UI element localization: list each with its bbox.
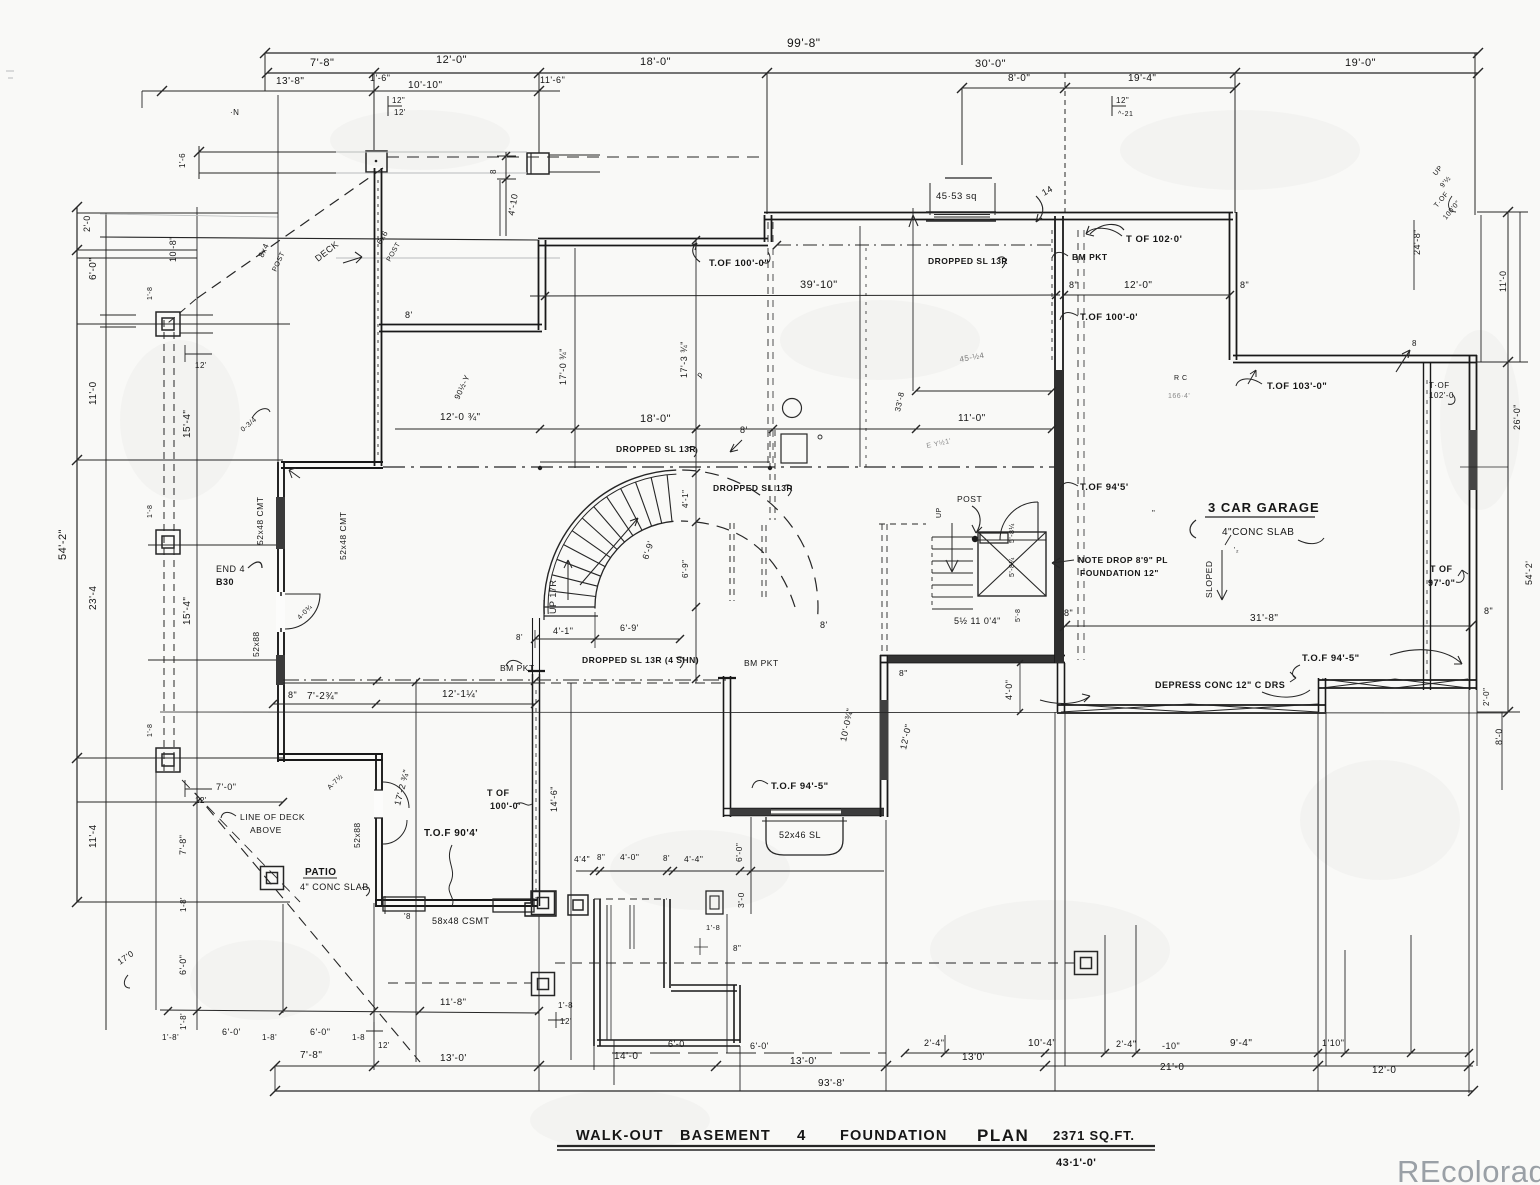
svg-text:11'-0": 11'-0" [958, 413, 986, 424]
svg-text:8': 8' [663, 854, 670, 863]
svg-text:POST: POST [957, 494, 982, 504]
svg-text:14'-0: 14'-0 [614, 1051, 638, 1062]
deck diagonal top-left [196, 168, 383, 299]
svg-text:4'4": 4'4" [574, 854, 590, 864]
post B top [527, 153, 549, 174]
svg-text:DROPPED SL 13R: DROPPED SL 13R [616, 444, 696, 454]
svg-text:·N: ·N [230, 108, 239, 117]
svg-text:1'-8: 1'-8 [706, 923, 720, 932]
svg-text:12'-0: 12'-0 [1372, 1065, 1396, 1076]
left tick lines [77, 212, 278, 214]
bottom vertical extension lines [538, 916, 540, 1091]
stair dashed arcs [676, 470, 818, 614]
svg-text:2'-4": 2'-4" [1116, 1039, 1136, 1049]
svg-text:6'-0': 6'-0' [750, 1041, 769, 1051]
svg-text:T OF: T OF [487, 788, 510, 798]
stair arrow [580, 518, 638, 585]
svg-text:52x88: 52x88 [251, 631, 261, 657]
svg-text:1-8': 1-8' [179, 897, 188, 912]
svg-text:6'-0: 6'-0 [668, 1039, 685, 1049]
vert ext x278 upper [277, 95, 279, 237]
post B right lines [549, 154, 600, 156]
svg-text:12": 12" [392, 96, 405, 105]
bottom outer line 93-8 [275, 1090, 1473, 1092]
svg-text:8": 8" [1240, 280, 1249, 290]
vert dim x696 [695, 240, 697, 683]
svg-text:12'-0": 12'-0" [436, 54, 467, 66]
room 727-884 wall x727 [723, 676, 725, 817]
svg-text:12'-0 ¾": 12'-0 ¾" [440, 412, 481, 423]
garage step x1322 [1318, 678, 1320, 712]
svg-text:13'-0': 13'-0' [440, 1053, 467, 1064]
kitchen dashed cabinets [729, 523, 731, 601]
svg-text:6'-9': 6'-9' [620, 623, 639, 633]
svg-text:8": 8" [1064, 608, 1073, 618]
svg-text:12'-0": 12'-0" [1124, 280, 1152, 291]
long thin line y712 leftward [160, 712, 1508, 713]
stair bottom [544, 606, 595, 608]
dim 4-10 vertical [499, 180, 501, 236]
wall y903 x379-535 with windows [375, 899, 537, 901]
piers at deck [532, 892, 555, 915]
vert dim x696 stair labels [692, 469, 700, 477]
small arcs wall x379 [383, 782, 409, 808]
svg-text:1-8': 1-8' [262, 1033, 277, 1042]
svg-text:11'-0: 11'-0 [88, 381, 99, 405]
svg-text:12'-1¼': 12'-1¼' [442, 688, 478, 700]
svg-text:10'-8": 10'-8" [168, 236, 178, 262]
svg-text:T.O.F 90'4': T.O.F 90'4' [424, 828, 478, 839]
south wall y659 x884-1065 [880, 655, 1065, 657]
dim line y704 [273, 703, 535, 705]
svg-text:12': 12' [378, 1041, 390, 1050]
svg-text:3 CAR GARAGE: 3 CAR GARAGE [1208, 500, 1320, 515]
window hatch top wall [926, 211, 996, 213]
svg-text:PATIO: PATIO [305, 867, 337, 878]
door opening arc on x281 [276, 592, 285, 632]
svg-text:T.OF 103'-0": T.OF 103'-0" [1267, 381, 1327, 392]
post A pad lines [199, 151, 336, 153]
nested 12in dims left [388, 96, 402, 116]
dims y871 row [576, 870, 884, 872]
svg-text:13'-8": 13'-8" [276, 76, 304, 87]
top dimension line row2 [267, 72, 1478, 74]
dash-dot south edge y680 [283, 679, 727, 681]
svg-text:8'-0: 8'-0 [1494, 728, 1504, 745]
jog wall y465 x283-383 [281, 461, 383, 463]
right ticks horizontals [1477, 211, 1528, 213]
interior line x913 [912, 208, 914, 391]
garage west bit x1061 y663-712 [1057, 663, 1059, 712]
svg-text:12': 12' [394, 108, 406, 117]
svg-text:19'-4": 19'-4" [1128, 73, 1156, 84]
svg-text:3'-0: 3'-0 [736, 892, 746, 908]
svg-text:WALK-OUT: WALK-OUT [576, 1128, 664, 1144]
svg-text:1'-8: 1'-8 [147, 287, 154, 300]
svg-text:1'10": 1'10" [1322, 1038, 1344, 1048]
svg-text:ABOVE: ABOVE [250, 825, 282, 835]
svg-text:6'-0": 6'-0" [178, 955, 188, 975]
svg-text:5'-8¼: 5'-8¼ [1009, 557, 1016, 577]
straight stair treads [932, 536, 973, 538]
wall y757 x281-383 [277, 753, 383, 755]
bottom-left small dim row y1010 [160, 1010, 539, 1013]
beam pocket top x536 [528, 670, 545, 672]
svg-text:8': 8' [740, 425, 748, 435]
step at x768 [764, 215, 766, 242]
svg-text:11'-4: 11'-4 [88, 824, 99, 848]
svg-text:11'-6": 11'-6" [540, 75, 565, 85]
svg-text:UP 17R: UP 17R [548, 580, 558, 614]
svg-text:4'-0": 4'-0" [620, 852, 639, 862]
svg-text:10'-4": 10'-4" [1028, 1038, 1056, 1049]
svg-text:UP: UP [936, 507, 943, 518]
wall x884 [880, 655, 882, 817]
left inner vertical lines [196, 207, 198, 1030]
UP arrow straight stair [951, 523, 953, 572]
dim 39-10 line y295 [530, 295, 1060, 296]
svg-text:1'-8: 1'-8 [147, 724, 154, 737]
dim line y428 [395, 428, 1052, 430]
garage bottom wall upper y684 [1318, 679, 1477, 681]
long centerline y467 [383, 466, 1055, 468]
svg-text:5½ 11 0'4": 5½ 11 0'4" [954, 616, 1001, 626]
svg-text:8': 8' [405, 310, 413, 320]
svg-text:R C: R C [1174, 375, 1188, 382]
svg-text:8'-0": 8'-0" [1008, 73, 1030, 84]
bay window bottom [766, 817, 843, 855]
svg-text:18'-0": 18'-0" [640, 413, 671, 425]
small pier right room [706, 891, 723, 914]
svg-text:T·OF: T·OF [1429, 381, 1450, 390]
svg-text:166·4': 166·4' [1168, 393, 1190, 400]
svg-text:FOUNDATION 12": FOUNDATION 12" [1080, 568, 1159, 578]
svg-text:97'-0": 97'-0" [1428, 578, 1455, 588]
45.53 label above wall [945, 177, 992, 179]
deck diagonal bottom [195, 793, 420, 1062]
svg-text:54'-2': 54'-2' [1524, 561, 1534, 585]
svg-text:4'-4": 4'-4" [684, 854, 703, 864]
svg-text:17'-0 ¾": 17'-0 ¾" [558, 348, 568, 385]
svg-text:9'-4": 9'-4" [1230, 1038, 1252, 1049]
svg-text:13'0': 13'0' [962, 1052, 985, 1063]
svg-text:12': 12' [195, 361, 207, 370]
left outer dim line 54-2 [76, 207, 78, 902]
svg-text:58x48 CSMT: 58x48 CSMT [432, 916, 490, 926]
dim 4-8 at post B [505, 152, 507, 236]
line y467 right stub [1460, 466, 1508, 468]
svg-text:1'-8': 1'-8' [162, 1033, 179, 1042]
room south wall y812 [723, 808, 884, 810]
svg-text:54'-2": 54'-2" [57, 529, 69, 560]
svg-text:21'-0: 21'-0 [1160, 1062, 1184, 1073]
spiral stair fan [544, 470, 676, 614]
wall W1 x378 [374, 168, 376, 466]
top wall of left-center room y240 [538, 238, 768, 240]
svg-text:REcolorado: REcolorado [1397, 1154, 1540, 1185]
svg-text:43∙1'‑0': 43∙1'‑0' [1056, 1157, 1096, 1169]
svg-text:1'-6: 1'-6 [178, 153, 187, 168]
right garage inner wall x1427 [1423, 362, 1425, 690]
svg-text:BASEMENT: BASEMENT [680, 1128, 771, 1144]
svg-text:6'-0': 6'-0' [222, 1027, 241, 1037]
svg-text:52x88: 52x88 [352, 822, 362, 848]
svg-text:DROPPED SL 13R: DROPPED SL 13R [713, 483, 793, 493]
svg-text:T.O.F 94'-5": T.O.F 94'-5" [1302, 653, 1360, 664]
svg-text:BM PKT: BM PKT [1072, 252, 1108, 262]
svg-text:END 4: END 4 [216, 564, 245, 574]
X-braced foundation pad [978, 532, 1046, 596]
post A top [366, 151, 387, 172]
dark window segs on x281 [276, 497, 285, 549]
left second dim line [105, 213, 107, 1030]
east wall x536 of room [532, 674, 534, 906]
svg-text:‑10": ‑10" [1162, 1041, 1180, 1051]
dim y391 line [916, 390, 1052, 392]
svg-text:B30: B30 [216, 577, 234, 587]
svg-text:7'-0": 7'-0" [216, 782, 236, 792]
stairwell bumpout walls [593, 899, 595, 1046]
right side rot dims of room [750, 817, 752, 914]
svg-text:14'-6": 14'-6" [549, 786, 559, 812]
garage wall y359 [1233, 355, 1477, 357]
ghost lines of pad [336, 151, 527, 153]
svg-text:12': 12' [560, 1017, 572, 1026]
svg-text:39'-10": 39'-10" [800, 279, 838, 291]
svg-text:BM PKT: BM PKT [744, 658, 779, 668]
svg-text:T.O.F 94'-5": T.O.F 94'-5" [771, 781, 829, 792]
svg-text:12": 12" [1116, 96, 1129, 105]
svg-text:8": 8" [899, 668, 908, 678]
svg-text:7'-2¾": 7'-2¾" [307, 691, 338, 702]
svg-text:8": 8" [733, 944, 741, 953]
svg-text:1-8: 1-8 [352, 1033, 365, 1042]
svg-text:T.OF 94'5': T.OF 94'5' [1080, 482, 1129, 493]
top wall y215 center [764, 212, 1064, 214]
wall y328 from 380 to 542 [379, 324, 542, 326]
svg-text:6'-0": 6'-0" [88, 258, 99, 280]
svg-text:PLAN: PLAN [977, 1126, 1029, 1145]
svg-text:DEPRESS CONC 12" C DRS: DEPRESS CONC 12" C DRS [1155, 680, 1285, 690]
svg-text:^-21: ^-21 [1118, 111, 1133, 118]
12 bracket bottom left [366, 1022, 383, 1040]
svg-text:NOTE DROP 8'9" PL: NOTE DROP 8'9" PL [1078, 555, 1168, 565]
svg-text:52x48 CMT: 52x48 CMT [338, 512, 348, 560]
svg-text:19'-0": 19'-0" [1345, 57, 1376, 69]
kitchen circle and rects [783, 399, 802, 418]
svg-text:4'-1": 4'-1" [553, 626, 573, 636]
svg-text:31'-8": 31'-8" [1250, 613, 1278, 624]
left wall x542 of left-center room [538, 240, 540, 330]
title underline [557, 1145, 1155, 1147]
nested 12in dims right [1112, 96, 1126, 116]
dashed line post A to B to wall [387, 156, 767, 158]
svg-text:8: 8 [489, 169, 498, 174]
svg-text:T.OF 100'-0": T.OF 100'-0" [709, 258, 769, 269]
svg-text:24'-8": 24'-8" [1412, 229, 1422, 255]
svg-text:4" CONC SLAB: 4" CONC SLAB [300, 882, 369, 892]
svg-text:102'‑0: 102'‑0 [1429, 391, 1454, 400]
svg-text:'8: '8 [404, 912, 411, 921]
svg-text:1'-8': 1'-8' [179, 1013, 188, 1030]
svg-text:8": 8" [1069, 280, 1078, 290]
center-right room dashed verticals [1077, 230, 1079, 660]
svg-text:99'-8": 99'-8" [787, 36, 821, 50]
garage right wall x1473 [1469, 355, 1471, 690]
svg-text:6'-9": 6'-9" [681, 560, 690, 578]
dim 12-0 y295 garage hall [1064, 294, 1230, 296]
svg-text:15'-4": 15'-4" [182, 597, 193, 625]
svg-text:4'-1": 4'-1" [681, 490, 690, 508]
svg-text:": " [1152, 509, 1155, 518]
svg-text:11'-0: 11'-0 [1498, 270, 1508, 292]
right dim verticals [1507, 212, 1509, 712]
svg-text:45·53 sq: 45·53 sq [936, 191, 977, 202]
svg-text:18'-0": 18'-0" [640, 56, 671, 68]
svg-text:FOUNDATION: FOUNDATION [840, 1128, 948, 1144]
svg-text:T.OF 100'-0': T.OF 100'-0' [1080, 312, 1138, 323]
svg-text:2371 SQ.FT.: 2371 SQ.FT. [1053, 1128, 1135, 1143]
svg-text:1'-6": 1'-6" [370, 73, 390, 83]
svg-text:2'-0: 2'-0 [82, 215, 92, 232]
svg-text:4"CONC SLAB: 4"CONC SLAB [1222, 527, 1294, 538]
svg-text:8': 8' [820, 620, 828, 630]
top dimension line row3 left [142, 90, 560, 92]
svg-text:7'-8": 7'-8" [300, 1050, 322, 1061]
svg-text:SLOPED: SLOPED [1204, 561, 1214, 599]
vert dim x416 [415, 683, 417, 1062]
big dark wall x1059 [1054, 216, 1056, 663]
svg-text:6'-0": 6'-0" [734, 843, 744, 862]
garage top wall y215 [1064, 212, 1233, 214]
svg-text:5'-8: 5'-8 [1015, 609, 1022, 622]
svg-text:4'-0": 4'-0" [1004, 680, 1014, 700]
svg-text:17'-3 ¾": 17'-3 ¾" [679, 341, 689, 378]
svg-text:DROPPED SL 13R: DROPPED SL 13R [928, 256, 1008, 266]
svg-text:1'-8: 1'-8 [147, 505, 154, 518]
dashdot y245 inside top wall [777, 244, 1056, 246]
svg-text:8': 8' [516, 633, 523, 642]
left wall x281 down [277, 462, 279, 762]
svg-text:BM PKT: BM PKT [500, 663, 535, 673]
svg-text:8": 8" [1484, 606, 1493, 616]
svg-text:23'-4: 23'-4 [88, 586, 99, 610]
wall x379 y757-903 [375, 753, 377, 906]
svg-text:52x48 CMT: 52x48 CMT [255, 497, 265, 545]
svg-text:2'-0": 2'-0" [1482, 688, 1491, 706]
svg-text:8: 8 [1412, 339, 1417, 348]
line y237 from left dims to wall [100, 237, 538, 240]
corner block bottom of x536 [525, 891, 556, 916]
svg-text:26'-0": 26'-0" [1512, 404, 1522, 430]
svg-text:8": 8" [597, 853, 605, 862]
main bottom dim row y1066 [275, 1065, 1473, 1067]
svg-text:13'-0': 13'-0' [790, 1056, 817, 1067]
svg-text:7'-8": 7'-8" [310, 57, 334, 69]
dims around stair bottom [535, 638, 680, 640]
svg-text:T OF 102·0': T OF 102·0' [1126, 234, 1182, 245]
svg-text:2'-4": 2'-4" [924, 1038, 944, 1048]
top dimension line 99-8 [265, 52, 1478, 54]
svg-text:4: 4 [797, 1127, 806, 1144]
svg-text:93'-8': 93'-8' [818, 1078, 845, 1089]
tiny corner marks top-left [6, 70, 14, 72]
deck dashed lines bottom [388, 982, 532, 984]
svg-text:100'-0': 100'-0' [490, 801, 521, 811]
interior line x860 [859, 226, 861, 467]
svg-text:T OF: T OF [1430, 564, 1453, 574]
svg-text:15'-4": 15'-4" [182, 410, 193, 438]
svg-text:DROPPED SL 13R (4 SHN): DROPPED SL 13R (4 SHN) [582, 655, 699, 665]
dim ticks y683 row [283, 682, 535, 684]
svg-text:5'-8¼: 5'-8¼ [1009, 523, 1016, 543]
svg-text:52x46 SL: 52x46 SL [779, 830, 821, 840]
top vertical extension lines [264, 53, 266, 91]
svg-text:7'-8": 7'-8" [178, 835, 188, 855]
door arc at stair [1000, 502, 1038, 540]
svg-text:'₂: '₂ [1234, 547, 1239, 554]
garage dim 31-8 y626 [1065, 625, 1471, 627]
top dimension line row3 right [962, 87, 1235, 89]
svg-text:30'-0": 30'-0" [975, 58, 1006, 70]
garage step wall x1233 [1229, 212, 1231, 360]
svg-text:11'-8": 11'-8" [440, 997, 467, 1008]
svg-text:1'-8: 1'-8 [558, 1001, 573, 1010]
vert dim x575 [574, 248, 576, 468]
svg-text:8": 8" [288, 690, 297, 700]
garage bottom wall lower y709 [1057, 704, 1326, 706]
svg-text:10'-10": 10'-10" [408, 80, 443, 91]
post pad rect [980, 533, 1008, 543]
svg-text:6'-0": 6'-0" [310, 1027, 330, 1037]
left posts with pads [156, 312, 180, 336]
svg-text:LINE OF DECK: LINE OF DECK [240, 812, 305, 822]
